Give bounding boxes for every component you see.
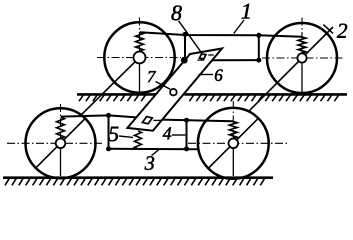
wheel TR: rim xyxy=(267,23,337,93)
dash of beam-1 bottom centre line under slider 8 xyxy=(197,59,204,61)
wheel TL: horizontal axle centre line xyxy=(97,57,181,59)
wheel BL: rim xyxy=(26,108,96,178)
label 8 xyxy=(171,6,181,21)
link 6: inclined bar body xyxy=(127,49,222,131)
wheel TR: diagonal radius line xyxy=(249,27,333,111)
leader of label 3 xyxy=(152,150,160,156)
leader of label 6 xyxy=(199,74,214,76)
leader of label 4 xyxy=(172,134,185,136)
label 5 xyxy=(109,127,119,141)
wheel top-right xyxy=(249,18,345,112)
beam 4: right post xyxy=(186,120,188,149)
label 3 xyxy=(145,156,154,170)
wheel BL: diagonal radius line xyxy=(36,119,85,168)
wheel TL: vertical centre line (upper, dash-dot) xyxy=(139,18,141,58)
upper ground rail line xyxy=(77,93,347,96)
dash of centre line right of slider 8 xyxy=(208,54,214,56)
wheel BL: vertical centre line (upper, dash-dot) xyxy=(60,104,62,143)
wheel BR: suspension spring xyxy=(229,122,237,139)
beam 1: bottom member (solid part right of link) xyxy=(211,59,259,61)
beam 1: top bar from left wheel spring to right wheel spring xyxy=(140,32,302,37)
leader of label 8 xyxy=(179,21,202,53)
beam 4: top member from link to right wheel spring xyxy=(161,120,233,122)
wheel BR: horizontal axle centre line xyxy=(188,142,287,144)
wheel bottom-left xyxy=(7,104,103,178)
wheel BR: vertical centre line (upper, dash-dot) xyxy=(232,101,234,143)
beam 4: top member from left post to link xyxy=(109,115,137,117)
wheel TL: suspension spring xyxy=(136,32,144,51)
beam 1: right post xyxy=(258,35,260,60)
wheel BL: horizontal axle centre line xyxy=(7,142,103,144)
wheel TR: horizontal axle centre line xyxy=(262,57,345,59)
label 7 xyxy=(148,71,156,82)
leader of label 1 xyxy=(234,20,244,34)
leader tick of label 2 xyxy=(323,25,333,34)
label 1 xyxy=(242,4,250,19)
wheel BR: hub xyxy=(229,139,239,149)
label 4 xyxy=(163,127,172,139)
slider 8 block on link top end xyxy=(199,54,206,59)
beam 1: left post xyxy=(184,33,186,60)
leader of label 7 xyxy=(156,82,171,90)
leader of label 5 xyxy=(119,136,133,138)
wheel BL: vertical spoke below hub xyxy=(60,143,62,176)
lower ground hatching xyxy=(5,178,265,186)
wheel TR: vertical spoke below hub xyxy=(301,58,303,93)
beam 4: top member from left wheel spring to left post xyxy=(61,115,109,116)
wheel TL: rim xyxy=(104,22,174,92)
wheel bottom-right xyxy=(188,101,287,179)
label 6 xyxy=(215,69,223,81)
lower ground line xyxy=(3,176,273,179)
pivot 7: fixed pin of link 6 xyxy=(170,89,177,96)
wheel top-left xyxy=(81,18,181,116)
wheel TR: suspension spring xyxy=(298,37,306,53)
pin joint: beam 1 left post bottom (at wheel rim) xyxy=(181,57,188,64)
dash of beam-4 top centre line right of bottom slider xyxy=(153,119,161,121)
pin joints xyxy=(106,32,261,151)
spring 5: between link lower end and beam bottom member xyxy=(135,131,142,149)
upper ground hatching xyxy=(79,94,339,101)
wheel TL: vertical spoke below hub xyxy=(139,58,141,93)
label 2 xyxy=(337,24,347,38)
wheel BR: vertical spoke below hub xyxy=(232,143,234,176)
wheel TR: hub xyxy=(297,53,306,62)
beam 4: left post xyxy=(108,115,110,148)
wheel TL: diagonal radius line xyxy=(81,58,140,116)
wheel BL: suspension spring xyxy=(57,117,65,138)
wheel BL: hub xyxy=(56,139,66,149)
wheel TL: hub xyxy=(134,52,146,64)
wheel BR: diagonal radius line xyxy=(208,118,258,168)
wheel TR: vertical centre line (upper, dash-dot) xyxy=(301,18,303,59)
slider block on link bottom end (above spring 5) xyxy=(142,117,152,124)
wheel BR: rim xyxy=(198,108,269,179)
beam 3: bottom member xyxy=(109,148,199,150)
